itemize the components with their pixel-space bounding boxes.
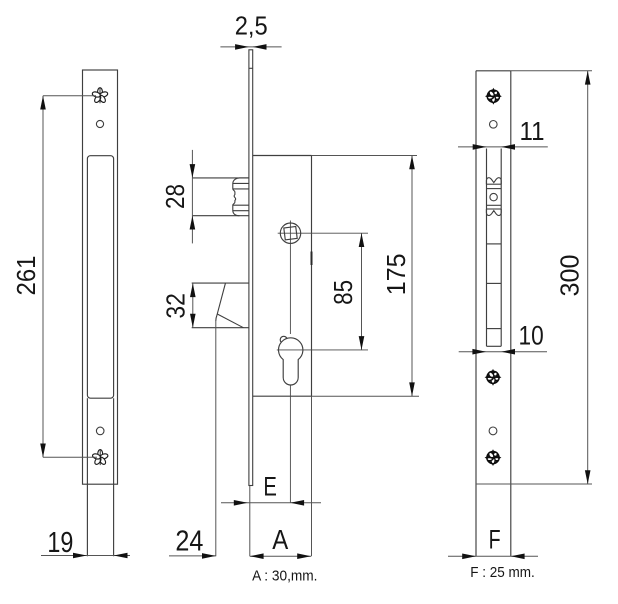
dimension 85 arrow up <box>359 233 365 247</box>
dimension 11 arrow right <box>473 144 487 150</box>
dimension 19 line <box>41 555 130 557</box>
svg-text:32: 32 <box>161 293 191 319</box>
dimension 28 line <box>191 150 193 244</box>
dimension E line <box>221 502 321 504</box>
dimension 2,5 line <box>220 46 281 48</box>
lock case body <box>253 156 312 397</box>
dimension 24 line <box>169 555 216 557</box>
dimension 2,5 arrow left <box>253 44 267 50</box>
right plate slot left edge <box>486 149 488 347</box>
extension line body top to 175 <box>312 155 418 157</box>
right plate left edge <box>475 71 477 557</box>
deadbolt slant edge <box>216 283 226 321</box>
svg-text:10: 10 <box>519 320 544 350</box>
dimension 10 line <box>459 351 547 353</box>
dimension 300 arrow down <box>585 470 591 484</box>
svg-text:11: 11 <box>520 116 545 146</box>
dimension F arrow right <box>462 554 476 560</box>
dimension 300 arrow up <box>585 71 591 85</box>
deadbolt diagonal brace <box>217 314 243 328</box>
deadbolt bottom line <box>192 327 249 329</box>
dimension 261 arrow up <box>40 96 46 110</box>
svg-text:E: E <box>263 472 277 502</box>
svg-text:300: 300 <box>555 255 585 297</box>
spindle follower square <box>284 227 297 240</box>
dimension 261 arrow down <box>40 444 46 458</box>
latch bolt guide top line <box>192 177 249 179</box>
faceplate weld tick <box>249 67 253 69</box>
faceplate thin bar <box>249 50 253 486</box>
deadbolt cutout bottom <box>487 345 502 347</box>
dimension 19 arrow right <box>73 553 87 559</box>
right plate right edge <box>510 71 512 557</box>
left plate outline <box>83 70 118 484</box>
left plate lower inner edge left <box>86 398 88 556</box>
screw S5 right plate bottom <box>485 449 502 466</box>
svg-text:261: 261 <box>11 256 41 296</box>
dimension 175 arrow up <box>409 156 415 170</box>
svg-text:A : 30,mm.: A : 30,mm. <box>252 568 317 585</box>
dimension 261 line <box>43 96 97 458</box>
svg-text:F: F <box>489 525 501 555</box>
latch bolt profile <box>233 178 249 216</box>
dimension 2,5 arrow right <box>235 44 249 50</box>
extension line body bottom to 175 <box>312 395 420 397</box>
left plate lower inner edge right <box>113 398 115 556</box>
screw S2 bottom left plate <box>92 450 109 466</box>
svg-text:A: A <box>272 524 288 555</box>
svg-text:28: 28 <box>160 184 190 209</box>
hole H4 right plate <box>489 427 497 435</box>
svg-text:85: 85 <box>328 280 358 305</box>
keyhole bump circle <box>280 336 287 343</box>
dimension E arrow right <box>234 500 248 506</box>
dimension E arrow left <box>290 500 304 506</box>
right plate slot right edge <box>500 149 502 347</box>
dimension 175 line <box>411 156 413 397</box>
dimension 85 arrow down <box>359 336 365 350</box>
dimension F arrow left <box>511 554 525 560</box>
svg-text:F : 25 mm.: F : 25 mm. <box>470 564 535 581</box>
euro cylinder keyhole <box>279 338 303 385</box>
dimension 175 arrow down <box>409 382 415 396</box>
dimension 32 line <box>192 283 194 328</box>
dimension A arrow right <box>297 553 311 559</box>
extension line deadbolt to 24 dim <box>215 321 217 556</box>
hole H2 left plate <box>96 427 104 435</box>
hole H1 left plate <box>96 120 103 127</box>
latch keeper piece <box>486 178 501 216</box>
dimension 11 arrow left <box>501 144 515 150</box>
latch bolt guide bottom line <box>192 215 249 217</box>
dimension 300 line <box>587 71 589 484</box>
svg-text:2,5: 2,5 <box>235 11 268 41</box>
dimension 11 line <box>458 146 548 148</box>
dimension F line <box>448 555 538 557</box>
extension line faceplate to A dim <box>249 486 251 556</box>
right plate top edge <box>476 70 511 72</box>
dimension 32 arrow up <box>190 283 196 297</box>
centerline vertical <box>289 221 291 503</box>
dimension A arrow left <box>250 553 264 559</box>
dimension 32 arrow down <box>190 314 196 328</box>
dimension 24 arrow right <box>202 553 216 559</box>
extension line 300 bottom across plate <box>476 483 592 485</box>
dimension 10 arrow right <box>472 349 486 355</box>
svg-text:24: 24 <box>175 526 203 558</box>
follower crosshair horizontal <box>278 232 368 234</box>
spindle follower circle <box>280 223 300 243</box>
screw S1 top left plate <box>92 88 109 104</box>
dimension 19 arrow left <box>114 553 128 559</box>
screw S4 right plate mid <box>485 369 502 386</box>
deadbolt cutout mid line 2 <box>487 328 502 330</box>
extension line plate top to 300 <box>511 70 592 72</box>
dimension 28 arrow down <box>190 164 196 178</box>
dimension 28 arrow up <box>190 216 196 230</box>
svg-text:19: 19 <box>47 527 73 559</box>
left plate recess slot <box>87 156 113 399</box>
body edge thick dash <box>311 252 313 266</box>
hole H3 right plate <box>490 121 498 129</box>
screw S3 right plate top <box>485 88 502 105</box>
deadbolt top line <box>192 282 249 284</box>
deadbolt cutout mid line 1 <box>487 282 502 284</box>
dimension 10 arrow left <box>501 349 515 355</box>
dimension A line <box>250 555 311 557</box>
svg-text:175: 175 <box>381 253 411 295</box>
keyhole crosshair horizontal <box>277 349 368 351</box>
deadbolt cutout top <box>487 243 502 245</box>
dimension 85 line <box>361 233 363 350</box>
extension line body right to A dim <box>311 396 313 556</box>
